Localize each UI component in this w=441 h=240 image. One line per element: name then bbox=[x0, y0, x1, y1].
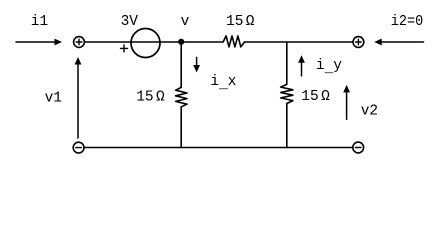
svg-text:15: 15 bbox=[226, 14, 243, 30]
svg-text:15: 15 bbox=[301, 89, 318, 105]
svg-text:i_y: i_y bbox=[316, 58, 342, 77]
svg-text:v: v bbox=[181, 14, 190, 30]
svg-text:Ω: Ω bbox=[246, 14, 255, 30]
svg-text:v1: v1 bbox=[45, 90, 62, 106]
svg-text:15: 15 bbox=[136, 89, 153, 105]
svg-text:i_x: i_x bbox=[210, 74, 236, 93]
svg-text:v2: v2 bbox=[361, 104, 378, 120]
svg-text:i1: i1 bbox=[31, 14, 48, 30]
svg-text:i2=0: i2=0 bbox=[391, 14, 424, 30]
svg-text:Ω: Ω bbox=[156, 89, 165, 105]
svg-text:3V: 3V bbox=[121, 14, 139, 30]
svg-text:Ω: Ω bbox=[321, 89, 330, 105]
